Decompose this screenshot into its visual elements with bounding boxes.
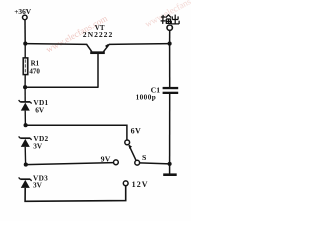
zener diode VD3: [19, 177, 32, 188]
switch S: 9V contact: [114, 160, 119, 165]
switch S: wiper arm with arrow: [129, 146, 136, 161]
svg-text:1000p: 1000p: [136, 93, 157, 101]
svg-text:9V: 9V: [101, 154, 111, 163]
transistor VT 2N2222: [87, 44, 110, 53]
wire: base junction down to VD1: [24, 87, 26, 102]
node: output junction dot: [168, 42, 172, 46]
svg-text:S: S: [142, 153, 146, 162]
svg-text:3V: 3V: [33, 180, 43, 189]
wire: base lead vertical up to transistor: [97, 54, 99, 88]
base bar: [90, 51, 105, 54]
svg-text:6V: 6V: [131, 126, 142, 135]
输: [161, 16, 166, 18]
switch S: 12V contact: [123, 181, 128, 186]
emitter lead with arrow: [104, 44, 110, 51]
switch S: wiper pivot: [135, 160, 140, 165]
terminal output: [167, 25, 172, 30]
wire: base rail horizontal: [25, 86, 98, 88]
svg-text:+36V: +36V: [14, 7, 32, 16]
svg-text:R1: R1: [31, 60, 40, 68]
wire: R1 bottom to base junction: [24, 75, 26, 88]
capacitor C1: [163, 87, 179, 89]
svg-text:2N2222: 2N2222: [83, 30, 113, 39]
switch S: 6V contact: [125, 140, 130, 145]
terminal +36V: [23, 15, 28, 20]
watermark www.elecfans.com (upper): [44, 13, 109, 54]
wire: wiper pivot to output column: [140, 163, 170, 164]
出: [174, 15, 176, 24]
wire: output terminal down to emitter junction: [169, 30, 171, 43]
wire: output junction down to C1 top plate: [169, 44, 171, 88]
ground: [169, 164, 171, 174]
node: 6V tap junction dot: [24, 123, 28, 127]
wire: emitter rail to output junction: [109, 43, 170, 46]
svg-text:6V: 6V: [35, 105, 45, 114]
svg-text:3V: 3V: [33, 141, 43, 150]
watermark www.elecfans.com (top right corner): [143, 0, 208, 29]
svg-text:12V: 12V: [132, 180, 149, 189]
wire: 9V branch horizontal to contact: [26, 163, 114, 165]
node: collector junction dot: [23, 42, 27, 46]
wire: collector rail to transistor: [25, 43, 87, 46]
node: base junction dot: [23, 85, 27, 89]
zener diode VD1: [19, 100, 32, 111]
collector lead: [87, 44, 92, 51]
wire: +36V terminal down to collector junction: [24, 20, 26, 44]
wire: 6V branch horizontal and corner down: [26, 125, 127, 140]
wire: C1 bottom plate down to switch-output junction: [169, 94, 171, 164]
wire: VD1 to 6V junction: [24, 111, 26, 126]
label 输出 (output): [161, 15, 180, 24]
wire: VD3 down and bottom rail to 12V stub: [25, 186, 126, 201]
wire: VD2 to 9V junction: [24, 147, 26, 165]
wire: left column junction down to R1 top: [24, 44, 26, 59]
node: switch-output junction dot: [168, 162, 172, 166]
node: 9V tap junction dot: [24, 163, 28, 167]
resistor R1: [23, 58, 28, 75]
svg-text:470: 470: [29, 67, 40, 75]
svg-text:www.elecfans.com: www.elecfans.com: [143, 0, 191, 29]
zener diode VD2: [19, 136, 32, 147]
